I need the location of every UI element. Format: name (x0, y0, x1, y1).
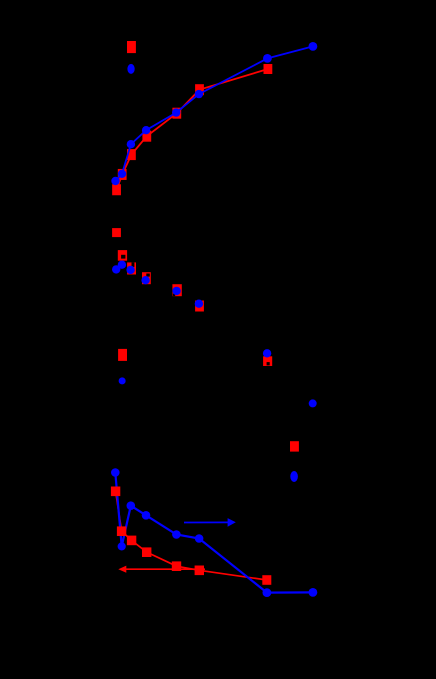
blue arrow (points right) (184, 518, 236, 527)
black knockout markers over series C squares (121, 255, 270, 366)
red line series A (top panel) (117, 69, 268, 190)
bottom legend blue circle (290, 471, 298, 482)
top legend blue circle (127, 64, 134, 74)
blue circles series B (no line) (112, 261, 317, 408)
red line bottom panel (116, 491, 267, 580)
blue line bottom panel (115, 473, 313, 593)
red arrow (points left) (118, 566, 205, 573)
blue circles bottom panel (111, 468, 317, 597)
red squares series A (112, 64, 272, 195)
red squares bottom panel (111, 487, 271, 585)
middle legend blue circle (119, 377, 126, 384)
blue line series A (116, 46, 313, 181)
middle legend red square (118, 349, 127, 361)
red squares series C (no line) (112, 228, 272, 366)
top legend red square (127, 41, 136, 53)
bottom legend red square (290, 441, 299, 451)
blue circles series A (111, 42, 317, 185)
